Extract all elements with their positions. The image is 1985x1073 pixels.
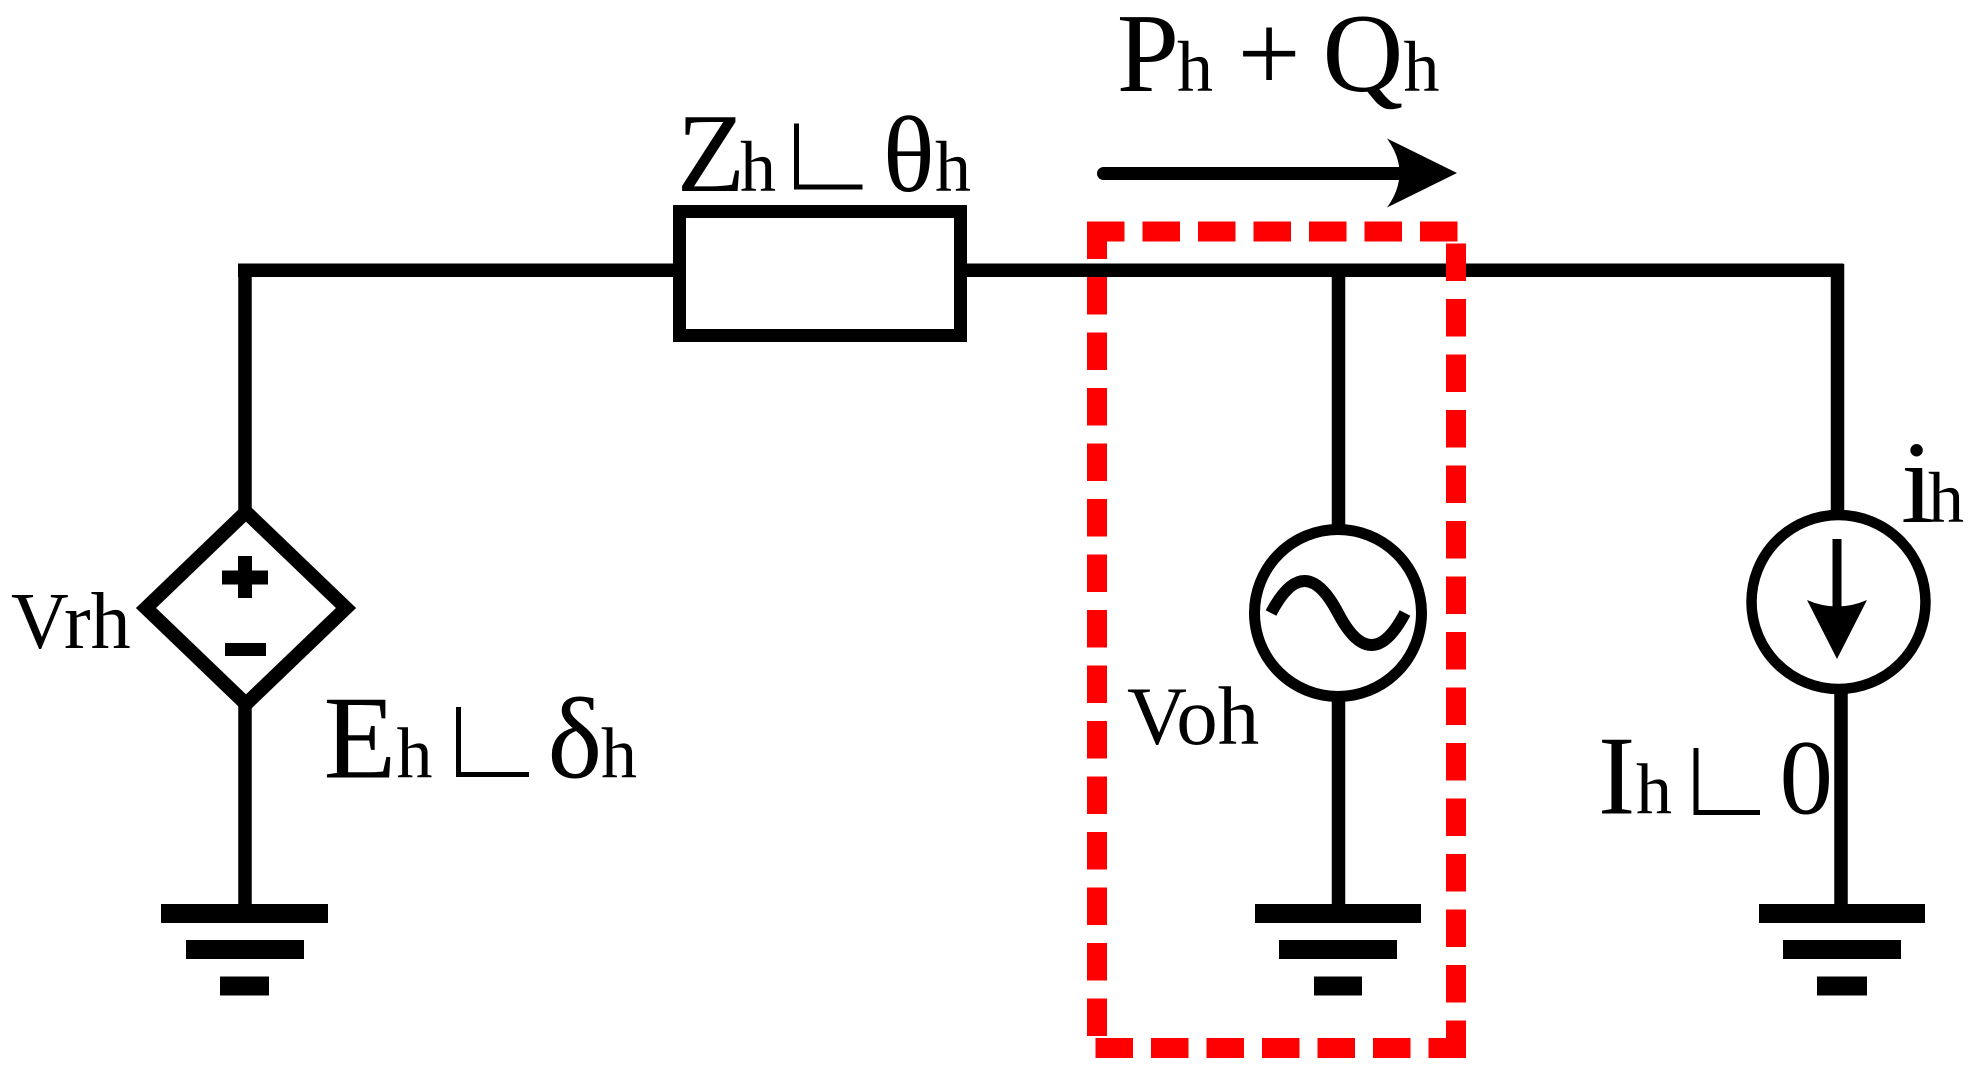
label Ph + Qh xyxy=(1117,0,1440,116)
impedance Zh box xyxy=(680,212,961,336)
svg-text:Q: Q xyxy=(1323,0,1404,116)
svg-text:Z: Z xyxy=(677,92,745,216)
wire: Voh source top lead xyxy=(1332,264,1346,535)
wire: Voh source bottom lead xyxy=(1332,697,1346,912)
power flow arrow xyxy=(1104,139,1458,208)
svg-text:h: h xyxy=(740,127,776,207)
svg-text:h: h xyxy=(1928,458,1964,538)
svg-text:Vrh: Vrh xyxy=(11,578,131,666)
ground (right) xyxy=(1759,914,1925,987)
current source ih (circle) xyxy=(1752,515,1926,689)
label Zh angle thetah xyxy=(677,92,971,216)
svg-text:δ: δ xyxy=(548,676,603,804)
svg-text:h: h xyxy=(1636,750,1672,830)
svg-text:P: P xyxy=(1117,0,1179,116)
wire: left source bottom lead xyxy=(238,705,252,912)
wire: left source top lead xyxy=(238,264,252,512)
svg-text:+: + xyxy=(1238,0,1301,116)
ground (left) xyxy=(161,914,328,987)
svg-text:0: 0 xyxy=(1780,720,1834,838)
svg-text:θ: θ xyxy=(883,96,935,215)
red dashed boundary box xyxy=(1087,222,1466,1059)
svg-text:E: E xyxy=(324,672,397,804)
wire: right drop from bus xyxy=(1831,264,1845,516)
svg-text:h: h xyxy=(935,127,971,207)
ground (middle) xyxy=(1255,914,1421,987)
svg-text:h: h xyxy=(1177,27,1213,107)
label ih xyxy=(1901,417,1964,548)
svg-text:Voh: Voh xyxy=(1127,670,1259,762)
wire: top horizontal bus xyxy=(238,264,1844,278)
wire: below current source xyxy=(1834,690,1848,912)
current arrow marking xyxy=(1807,539,1867,659)
svg-text:I: I xyxy=(1598,715,1635,839)
svg-text:h: h xyxy=(1404,27,1440,107)
svg-text:h: h xyxy=(397,714,433,794)
plus marking xyxy=(222,556,268,598)
minus marking xyxy=(225,643,266,656)
label Ih angle 0 xyxy=(1598,715,1833,839)
svg-text:h: h xyxy=(601,714,637,794)
label Eh angle deltah xyxy=(324,672,638,804)
sine marking xyxy=(1271,581,1405,645)
AC voltage source Voh (circle) xyxy=(1255,530,1422,697)
dependent voltage source Eh (diamond) xyxy=(146,512,346,704)
